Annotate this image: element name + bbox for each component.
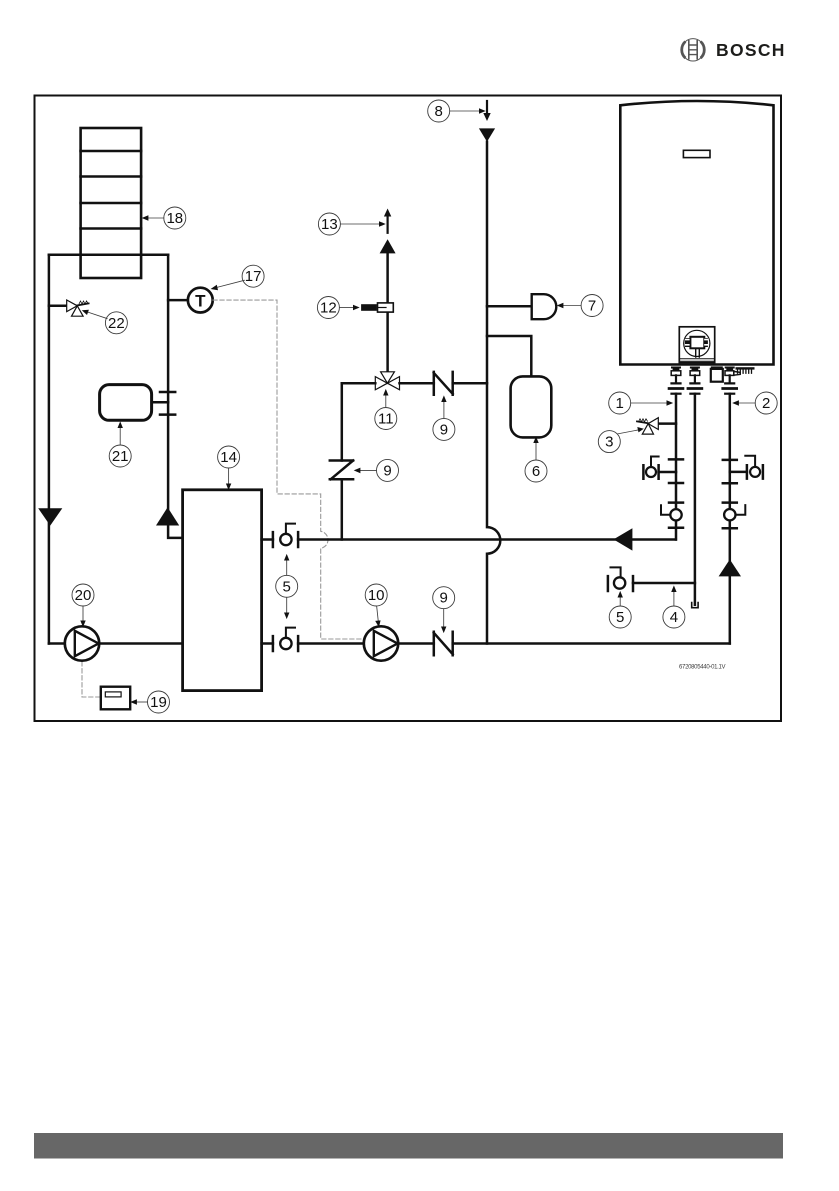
union ticks pipe 3: [723, 460, 737, 528]
node label 5: [609, 591, 631, 628]
svg-text:20: 20: [75, 587, 92, 604]
fitting pipe 3: [723, 367, 740, 394]
controller 19: [101, 687, 130, 710]
wire branch to pressure gauge 7: [487, 305, 532, 308]
fill valve 5 right: [608, 567, 633, 591]
flow arrow left on heating branch: [614, 528, 633, 550]
dashed control line from 17 to pump 10: [213, 300, 364, 639]
node label 10: [365, 584, 387, 627]
svg-text:1: 1: [616, 395, 624, 412]
wire branch to expansion vessel 6: [487, 336, 531, 376]
svg-text:19: 19: [150, 694, 167, 711]
air separator 12: [361, 304, 377, 311]
svg-text:T: T: [195, 291, 206, 310]
flow arrow down on left wall: [38, 508, 62, 525]
svg-text:21: 21: [112, 448, 129, 465]
frame border: [35, 96, 782, 722]
node label 22: [82, 310, 128, 334]
node label 9: [433, 395, 455, 440]
node label 9: [433, 587, 455, 633]
svg-text:5: 5: [616, 609, 624, 626]
expansion vessel 6: [511, 376, 552, 437]
svg-text:9: 9: [383, 462, 391, 479]
shut-off valve 5 lower-left: [273, 628, 298, 651]
shut-off valve on pipe 1: [670, 509, 681, 520]
pump 10: [364, 626, 398, 660]
svg-text:5: 5: [283, 578, 291, 595]
svg-text:2: 2: [762, 395, 770, 412]
svg-text:10: 10: [368, 587, 385, 604]
control panel: [679, 327, 714, 363]
wire vessel 21 connector: [152, 401, 168, 404]
node label 5: [276, 554, 298, 619]
node label 2: [732, 392, 777, 414]
boiler connection fittings: [669, 366, 754, 393]
blow-off pipe 13 head arrow: [387, 215, 389, 233]
svg-text:9: 9: [440, 421, 448, 438]
wire valve 11 left: [342, 382, 376, 385]
wire top edge: [49, 253, 168, 256]
node label 1: [609, 392, 674, 414]
gas connection square: [711, 366, 723, 369]
node label 11: [375, 389, 397, 430]
svg-text:22: 22: [108, 315, 125, 332]
node label 18: [142, 207, 186, 229]
three-way safety valve 11: [375, 372, 399, 390]
expansion vessel 21: [100, 385, 152, 421]
wire lower branch from tank 14: [262, 642, 273, 645]
footer gray bar: [34, 1133, 783, 1159]
compensator 9 Z symbol: [330, 461, 353, 480]
safety valve 3: [637, 418, 676, 434]
compensator 9 top N symbol: [434, 372, 453, 395]
node label 13: [318, 213, 385, 235]
node label 6: [525, 436, 547, 482]
wire bottom pipe to right: [453, 642, 730, 645]
drain valve on pipe 3: [730, 456, 763, 479]
flow arrow up on right wall: [156, 507, 179, 525]
svg-text:4: 4: [670, 609, 678, 626]
wire right wall pipe: [168, 255, 183, 538]
flow arrow down 8: [479, 128, 495, 141]
wire upper branch from tank 14: [262, 538, 273, 541]
radiator stack 18: [81, 128, 142, 278]
svg-text:13: 13: [321, 216, 338, 233]
wire fill branch: [633, 582, 695, 585]
wire to main cold water pipe: [453, 382, 487, 385]
node label 7: [557, 295, 603, 317]
svg-text:12: 12: [320, 300, 337, 317]
wire pump 10 to check valve: [398, 642, 433, 645]
wire blow-off pipe down to valve 11: [386, 253, 389, 371]
svg-text:7: 7: [588, 298, 596, 315]
inlet arrow 8: [486, 101, 488, 115]
siphon funnel 4: [692, 603, 698, 608]
svg-text:9: 9: [440, 590, 448, 607]
svg-text:17: 17: [245, 268, 262, 285]
node label 20: [72, 584, 94, 627]
shut-off valve 5 upper-left: [273, 524, 298, 547]
svg-text:6: 6: [532, 463, 540, 480]
check valve 9 bottom: [434, 632, 453, 655]
svg-text:3: 3: [605, 434, 613, 451]
node label 9: [354, 459, 399, 481]
pressure gauge 7: [532, 294, 557, 319]
buffer tank 14: [183, 490, 262, 691]
wire pump 20 to tank 14: [99, 642, 183, 645]
vent pipe with Z compensator 9: [341, 383, 344, 539]
svg-text:18: 18: [166, 210, 183, 227]
svg-text:6720805440-01.1V: 6720805440-01.1V: [679, 664, 726, 670]
shut-off valve on pipe 3: [724, 509, 735, 520]
svg-text:BOSCH: BOSCH: [716, 40, 786, 60]
flow arrow up 13: [380, 239, 396, 253]
node label 12: [317, 297, 359, 319]
node label 17: [211, 265, 265, 290]
vessel 21 wall ticks: [160, 392, 175, 415]
svg-text:11: 11: [378, 411, 394, 428]
BOSCH logo icon: [682, 39, 705, 61]
wire main pipe with hop over branch: [487, 142, 500, 644]
safety valve 22: [49, 300, 89, 316]
wire bottom pipe to pump 20: [49, 642, 65, 645]
node label 8: [428, 100, 486, 122]
svg-text:14: 14: [220, 449, 237, 466]
wire upper branch to heating circuit: [298, 538, 676, 541]
wire valve 11 right: [400, 382, 434, 385]
pump 20: [65, 626, 99, 660]
node label 21: [109, 421, 131, 467]
node label 4: [663, 585, 685, 628]
thermometer 17: [168, 299, 188, 302]
dashed control line pump 20 to controller 19: [82, 662, 100, 697]
svg-text:8: 8: [435, 103, 443, 120]
node label 3: [598, 427, 644, 453]
electrical terminal strip: [736, 367, 755, 369]
drain valve on pipe 1: [643, 457, 676, 479]
fitting pipe 2: [688, 367, 702, 394]
node label 14: [218, 446, 240, 490]
fitting pipe 1: [669, 367, 683, 394]
union ticks pipe 1: [669, 459, 683, 527]
wire lower branch to pump 10: [298, 642, 364, 645]
node label 19: [130, 691, 169, 713]
flow arrow up on pipe 3: [719, 559, 741, 576]
wire left wall pipe: [48, 255, 51, 644]
